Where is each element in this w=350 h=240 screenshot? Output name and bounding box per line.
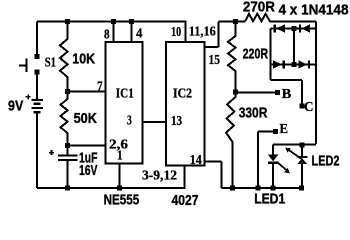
wire pins 2,6 bbox=[68, 145, 106, 147]
svg-text:B: B bbox=[282, 87, 292, 102]
LED1 bbox=[268, 155, 279, 162]
resistor 50K bbox=[61, 91, 68, 145]
svg-text:S1: S1 bbox=[45, 56, 56, 71]
diode D2 bbox=[299, 24, 301, 32]
svg-text:8: 8 bbox=[104, 28, 110, 43]
svg-text:13: 13 bbox=[171, 114, 182, 129]
wire pin 10 bbox=[185, 22, 187, 43]
svg-text:330R: 330R bbox=[239, 105, 268, 122]
wire LED top connector bbox=[273, 145, 316, 157]
wire bridge left vertical bbox=[270, 29, 272, 81]
resistor 10K bbox=[60, 22, 68, 92]
battery 9V bbox=[32, 100, 44, 112]
svg-text:16V: 16V bbox=[79, 162, 98, 179]
wire bridge right vertical bbox=[315, 22, 317, 144]
resistor 330R bbox=[226, 92, 236, 188]
svg-text:11,16: 11,16 bbox=[189, 24, 216, 39]
node 10K/50K junction bbox=[65, 89, 70, 94]
svg-text:15: 15 bbox=[209, 53, 221, 68]
wire battery minus down to bottom rail bbox=[36, 113, 38, 188]
node B junction bbox=[233, 90, 238, 95]
wire to terminal C bbox=[271, 79, 303, 81]
svg-text:10: 10 bbox=[171, 25, 181, 40]
wire bottom rail left segment bbox=[37, 187, 186, 189]
node terminal C bbox=[300, 104, 305, 109]
svg-text:4 x 1N4148: 4 x 1N4148 bbox=[279, 1, 349, 18]
wire bridge bottom row bbox=[271, 64, 317, 66]
svg-text:7: 7 bbox=[97, 80, 103, 95]
capacitor C1 1uF bbox=[58, 146, 77, 188]
svg-text:IC1: IC1 bbox=[116, 86, 134, 101]
LED1 arrow bbox=[278, 163, 288, 171]
wire bridge top row bbox=[271, 28, 317, 30]
resistor 220R bbox=[228, 22, 236, 93]
svg-text:9V: 9V bbox=[8, 98, 23, 115]
svg-text:3: 3 bbox=[127, 113, 132, 128]
node bridge mid bottom bbox=[292, 62, 297, 67]
svg-text:LED1: LED1 bbox=[254, 190, 285, 207]
wire bottom rail right segment bbox=[222, 187, 304, 189]
svg-text:4: 4 bbox=[136, 26, 142, 41]
node 270R/220R junction bbox=[233, 19, 238, 24]
svg-text:50K: 50K bbox=[74, 110, 98, 127]
wire pin 1 bbox=[119, 164, 121, 188]
node bridge mid top bbox=[292, 26, 297, 31]
wire pin 4 bbox=[131, 22, 133, 43]
svg-text:LED2: LED2 bbox=[312, 152, 340, 169]
svg-text:1: 1 bbox=[117, 148, 123, 163]
svg-text:NE555: NE555 bbox=[104, 192, 140, 209]
wire pins 3-9,12 ground bbox=[184, 166, 186, 188]
wire to terminal E bbox=[258, 132, 276, 188]
wire top rail left segment bbox=[37, 21, 187, 23]
wire pin 7 bbox=[68, 90, 106, 92]
resistor 270R bbox=[245, 14, 316, 22]
node 50K/cap junction bbox=[65, 143, 70, 148]
diode D3 bbox=[273, 60, 282, 68]
wire to terminal B bbox=[236, 92, 278, 94]
diode D1 bbox=[274, 24, 276, 32]
IC2 4027 box bbox=[166, 42, 205, 166]
svg-text:270R: 270R bbox=[243, 0, 275, 16]
LED2 bbox=[297, 156, 307, 158]
diode D4 bbox=[298, 60, 307, 68]
svg-text:4027: 4027 bbox=[172, 192, 199, 209]
svg-text:220R: 220R bbox=[243, 46, 269, 63]
wire switch bottom to battery bbox=[36, 72, 38, 100]
switch S1 bbox=[19, 59, 27, 72]
op-amp IC1 NE555 box bbox=[106, 42, 143, 164]
svg-text:IC2: IC2 bbox=[173, 86, 192, 101]
svg-text:E: E bbox=[280, 122, 289, 137]
svg-text:3-9,12: 3-9,12 bbox=[142, 169, 177, 184]
wire left vertical from rail to switch bbox=[36, 22, 38, 57]
wire pin 8 bbox=[113, 22, 115, 43]
node LED2 top junction bbox=[300, 142, 305, 147]
svg-text:14: 14 bbox=[190, 153, 202, 168]
LED2 arrow bbox=[288, 150, 302, 160]
wire pin 3 to pin 13 bbox=[143, 121, 167, 123]
wire bridge middle vertical bbox=[293, 29, 295, 65]
svg-text:10K: 10K bbox=[72, 51, 95, 68]
wire pin 15 riser bbox=[205, 22, 246, 48]
wire pin 14 bbox=[205, 162, 222, 188]
svg-text:C: C bbox=[304, 100, 314, 115]
